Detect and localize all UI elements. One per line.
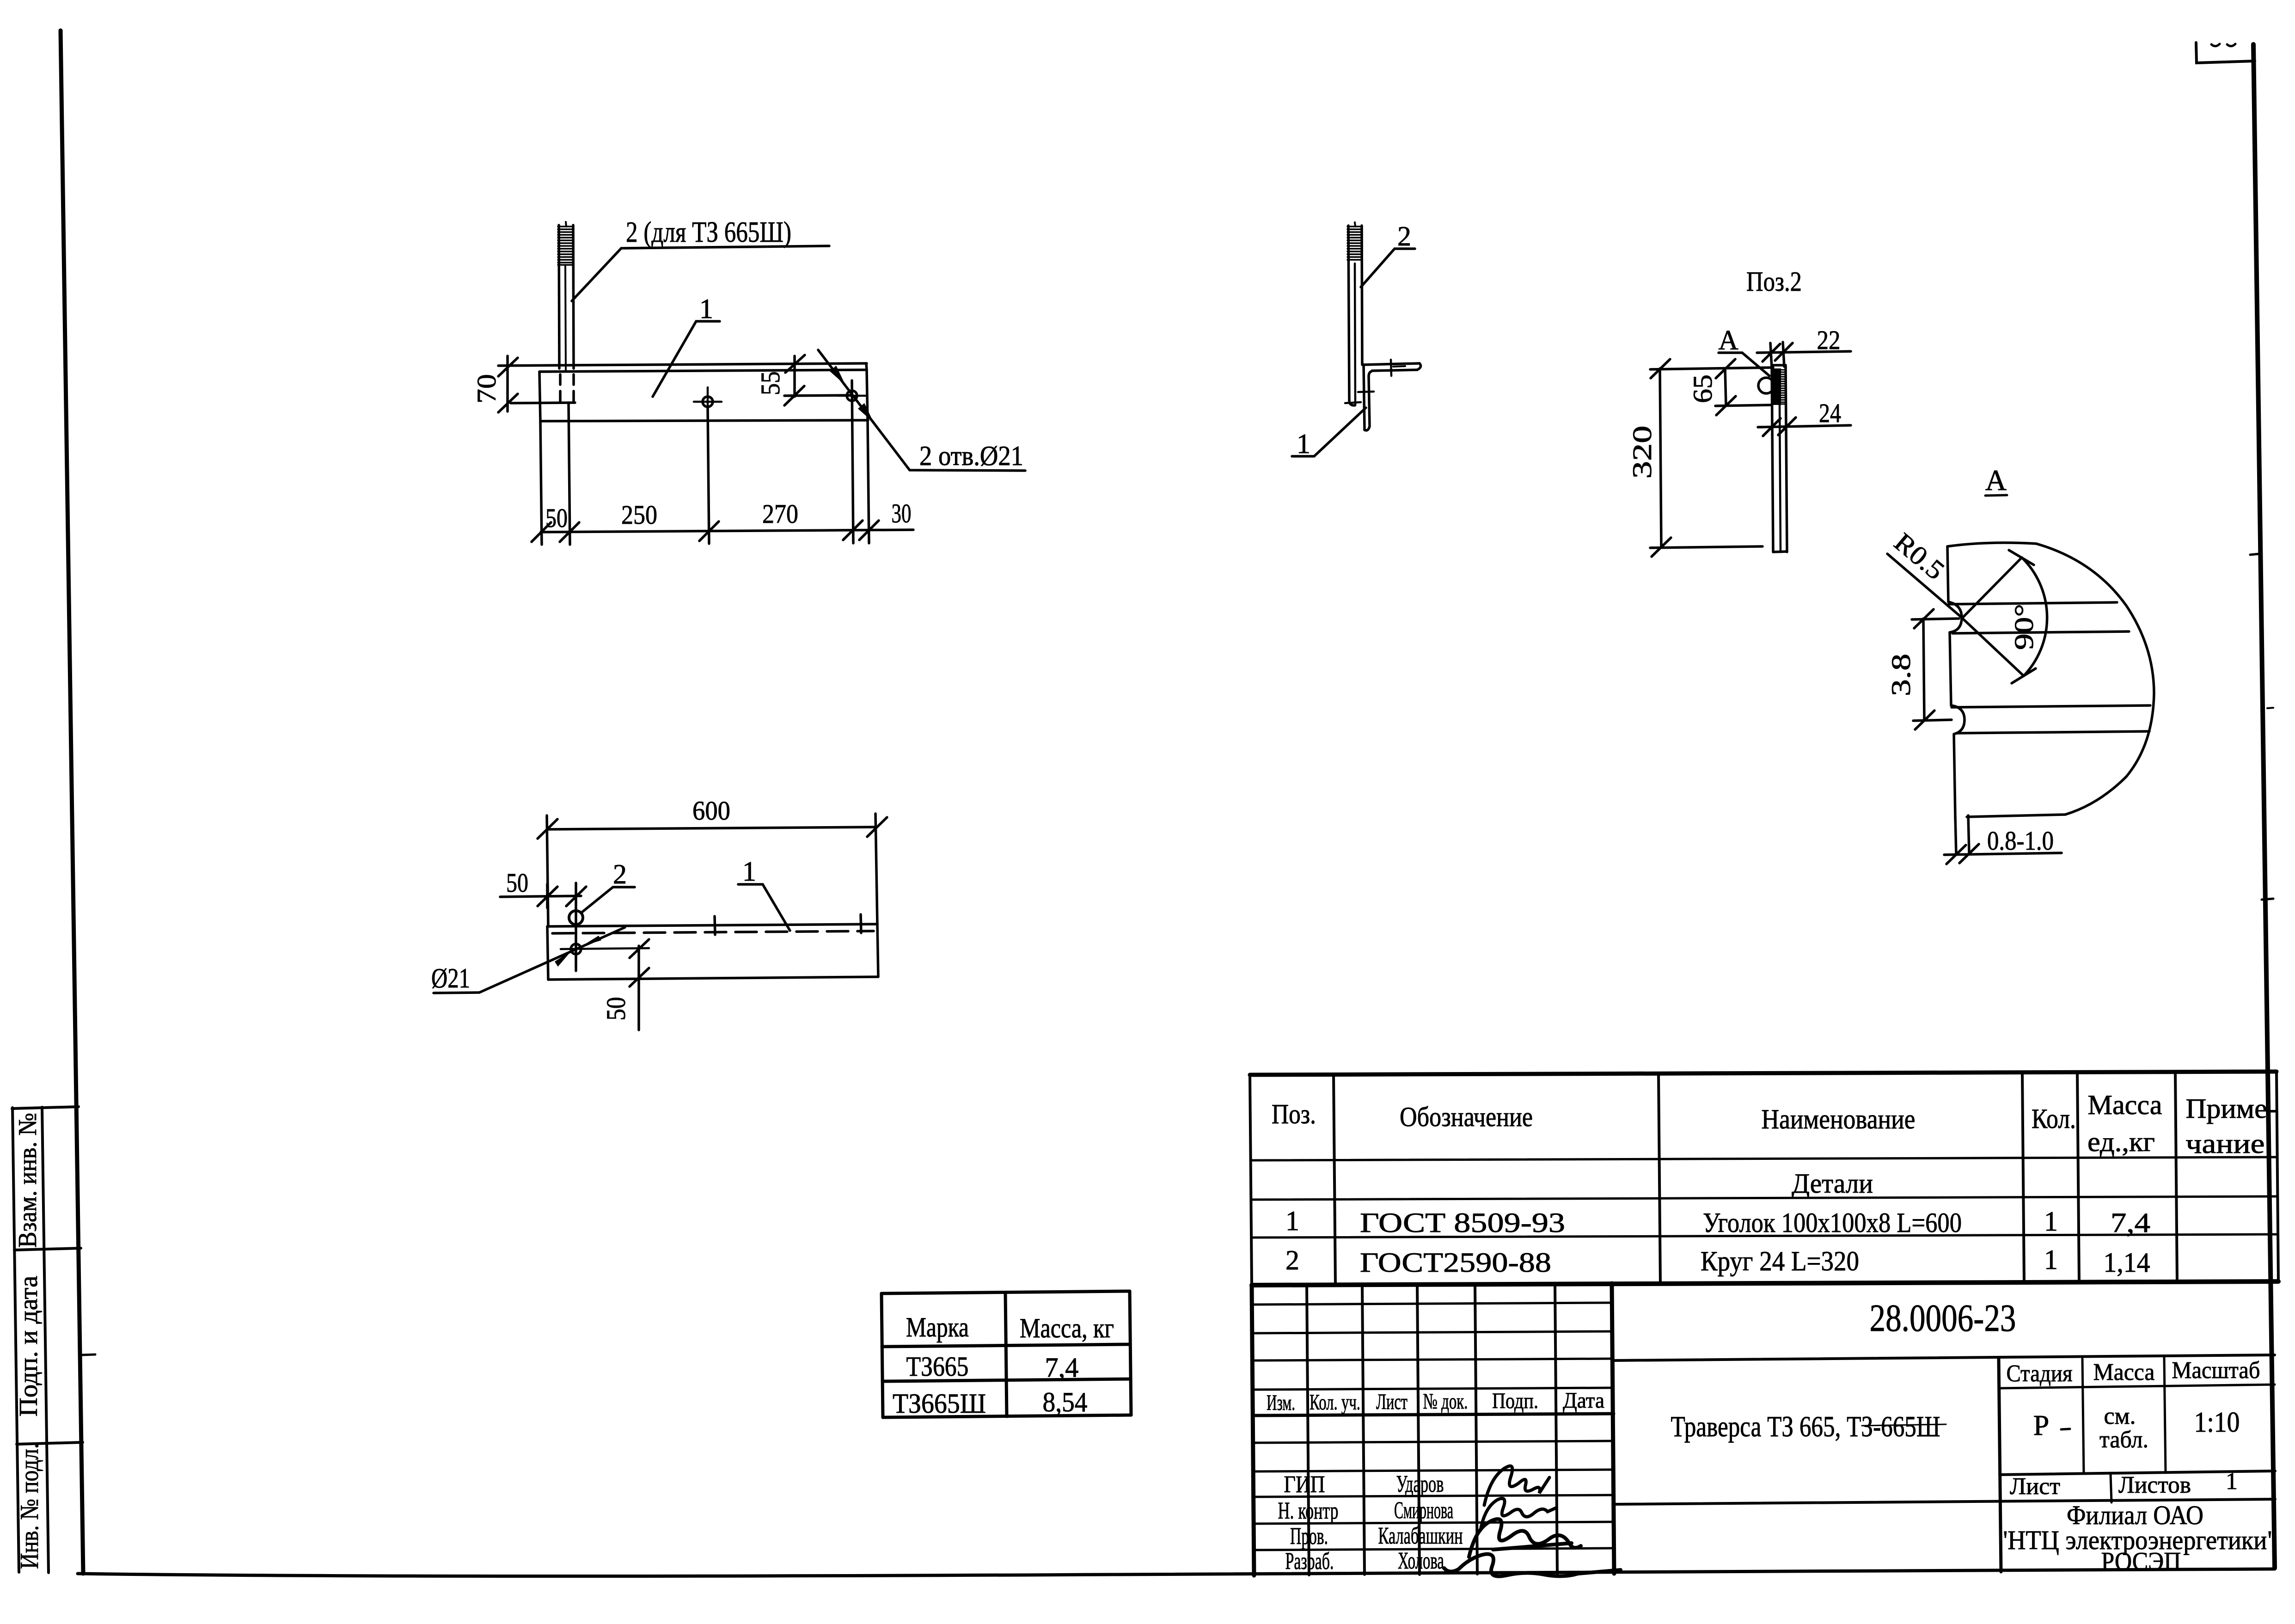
angle 90 upper leg bbox=[1962, 558, 2022, 618]
label A underline bbox=[1719, 351, 1742, 354]
dim 0.8 tick a bbox=[1946, 845, 1966, 864]
leader 1 side bbox=[1292, 408, 1366, 456]
rod thread hatch bbox=[558, 227, 574, 265]
dim 22 line bbox=[1757, 351, 1851, 353]
svg-text:Стадия: Стадия bbox=[2007, 1360, 2073, 1387]
leader pos 2 bbox=[581, 887, 635, 913]
svg-text:1: 1 bbox=[1297, 429, 1310, 459]
svg-text:ГИП: ГИП bbox=[1284, 1471, 1325, 1498]
svg-text:Н. контр: Н. контр bbox=[1278, 1498, 1339, 1524]
dim 600 ext left bbox=[547, 815, 548, 926]
cross tick on horizontal bar bbox=[1391, 360, 1391, 376]
center line through rod hole bbox=[575, 883, 577, 971]
dim 320 tick top bbox=[1651, 359, 1670, 378]
VIEW1 bbox=[471, 215, 1025, 545]
svg-text:Холова: Холова bbox=[1398, 1548, 1444, 1574]
extension line left edge bbox=[540, 421, 542, 545]
svg-text:А: А bbox=[1985, 464, 2007, 496]
signature Калабашкин bbox=[1469, 1519, 1581, 1557]
thread profile left edge mid bbox=[1950, 632, 1951, 705]
thread flank line 1 bbox=[1949, 602, 2117, 604]
svg-text:Лист: Лист bbox=[2010, 1473, 2060, 1500]
angle bar top edge bbox=[498, 363, 867, 366]
tick mark mid top line bbox=[715, 916, 715, 935]
angle bar bottom edge bbox=[540, 420, 868, 421]
rod bottom tick bbox=[1345, 402, 1361, 403]
crest left edge a bbox=[1955, 817, 1956, 854]
svg-text:Разраб.: Разраб. bbox=[1285, 1548, 1334, 1575]
svg-text:Масштаб: Масштаб bbox=[2172, 1357, 2260, 1384]
svg-text:табл.: табл. bbox=[2099, 1427, 2148, 1453]
VIEW3 bbox=[1292, 221, 1421, 459]
svg-text:см.: см. bbox=[2104, 1403, 2136, 1429]
dim 65 ext bottom bbox=[1715, 405, 1772, 406]
left margin column line inner bbox=[42, 1107, 49, 1573]
middle hole cross horizontal bbox=[694, 401, 722, 403]
tick at 570 bbox=[843, 521, 863, 540]
marka table divider bbox=[1005, 1293, 1007, 1416]
bracket vertical left edge bbox=[1364, 365, 1365, 430]
sig row b bbox=[1252, 1331, 1613, 1333]
svg-text:Лист: Лист bbox=[1376, 1390, 1408, 1414]
bracket corner fillet bbox=[1369, 371, 1373, 376]
dim 3.8 line bbox=[1923, 619, 1924, 720]
rod end circle bbox=[569, 911, 583, 925]
DETAILA bbox=[1886, 464, 2154, 864]
svg-text:Кол.: Кол. bbox=[2032, 1103, 2076, 1134]
svg-text:50: 50 bbox=[506, 868, 528, 898]
marka table bottom bbox=[883, 1415, 1131, 1417]
dim 50 left ext bbox=[546, 884, 549, 908]
svg-text:2 отв.Ø21: 2 отв.Ø21 bbox=[919, 441, 1023, 471]
svg-text:Детали: Детали bbox=[1792, 1168, 1873, 1199]
sig row g bbox=[1254, 1470, 1614, 1471]
R0.5 leader bbox=[1887, 554, 1961, 617]
sig row h bbox=[1254, 1495, 1614, 1497]
rod detail right edge bbox=[1786, 365, 1787, 552]
tick at 600 bbox=[859, 521, 879, 540]
svg-text:Листов: Листов bbox=[2118, 1472, 2191, 1498]
svg-text:24: 24 bbox=[1819, 398, 1841, 428]
svg-text:0.8-1.0: 0.8-1.0 bbox=[1987, 826, 2054, 856]
stray dash mark right mid bbox=[2267, 708, 2273, 708]
dim 320 line bbox=[1660, 368, 1661, 547]
sig col 1 bbox=[1307, 1285, 1309, 1575]
svg-text:Поз.: Поз. bbox=[1272, 1099, 1316, 1129]
side rod thread hatch bbox=[1347, 227, 1362, 260]
dash after Р bbox=[2061, 1429, 2070, 1429]
svg-text:Масса: Масса bbox=[2093, 1359, 2155, 1385]
tick mark right top line bbox=[861, 914, 861, 933]
marka table left bbox=[881, 1293, 883, 1417]
right page border line bbox=[2253, 44, 2275, 1568]
svg-text:Траверса ТЗ 665, ТЗ-665Ш: Траверса ТЗ 665, ТЗ-665Ш bbox=[1671, 1410, 1940, 1443]
thread flank line 2 bbox=[1952, 631, 2129, 633]
extension line right hole bbox=[852, 380, 853, 543]
leader line 2 otv bbox=[818, 350, 1025, 471]
marka table header line bbox=[882, 1344, 1130, 1347]
svg-text:ГОСТ 8509-93: ГОСТ 8509-93 bbox=[1360, 1207, 1565, 1238]
dim 22 ext right bbox=[1783, 342, 1784, 367]
svg-text:Пров.: Пров. bbox=[1290, 1523, 1328, 1550]
SPEC bbox=[1250, 1072, 2278, 1285]
svg-text:1: 1 bbox=[1285, 1206, 1299, 1236]
lower hole cross horizontal bbox=[561, 948, 649, 949]
svg-text:8,54: 8,54 bbox=[1043, 1387, 1088, 1417]
dim 24 tick left bbox=[1763, 418, 1781, 436]
bracket vertical right edge bbox=[1369, 376, 1370, 426]
svg-text:Подп. и дата: Подп. и дата bbox=[14, 1275, 43, 1416]
svg-text:Смирнова: Смирнова bbox=[1394, 1497, 1453, 1524]
sig col 3 bbox=[1417, 1284, 1420, 1575]
svg-text:250: 250 bbox=[621, 500, 657, 530]
left margin column line outer bbox=[12, 1108, 19, 1572]
leader for pos 2 label bbox=[572, 246, 829, 301]
svg-text:70: 70 bbox=[471, 374, 502, 404]
dim 320 ext top bbox=[1650, 368, 1773, 369]
svg-text:Калабашкин: Калабашкин bbox=[1378, 1523, 1463, 1549]
tick at 50 bbox=[560, 522, 579, 542]
line under doc number bbox=[1613, 1355, 2275, 1360]
tick at 0 bbox=[532, 522, 551, 542]
side rod middle line bbox=[1355, 264, 1355, 405]
plan view left edge bbox=[547, 926, 548, 980]
label A leader line bbox=[1742, 353, 1769, 376]
dim 65 tick top bbox=[1716, 359, 1735, 378]
list divider bbox=[2111, 1474, 2111, 1502]
spec row line detali bbox=[1251, 1196, 2277, 1200]
stray dash mark bbox=[82, 1354, 95, 1355]
vertical stadia left bbox=[1999, 1359, 2001, 1572]
dim 22 ext left bbox=[1770, 343, 1772, 368]
rod thread comb bbox=[1781, 370, 1785, 404]
svg-text:1: 1 bbox=[699, 294, 713, 324]
threaded rod part 2 right edge bbox=[573, 225, 574, 368]
arrowhead lower bbox=[858, 403, 874, 423]
sig col 2 bbox=[1362, 1284, 1365, 1575]
line under stadia header bbox=[1999, 1385, 2275, 1388]
dim 3.8 ext bottom bbox=[1913, 720, 1952, 721]
dim 55 extension line bbox=[793, 356, 796, 397]
svg-text:ед.,кг: ед.,кг bbox=[2087, 1127, 2155, 1157]
sig row i bbox=[1254, 1522, 1615, 1524]
spec table top border bbox=[1250, 1072, 2277, 1075]
svg-text:2: 2 bbox=[1397, 221, 1411, 251]
svg-text:1: 1 bbox=[2044, 1206, 2058, 1237]
dim 22 tick left bbox=[1763, 344, 1780, 362]
stray dash mark right bbox=[2262, 899, 2273, 900]
spec table bottom border bbox=[1252, 1281, 2278, 1285]
rod tip tick bbox=[566, 222, 566, 227]
svg-text:270: 270 bbox=[762, 499, 798, 529]
spec col kol bbox=[2077, 1072, 2079, 1282]
svg-text:1,14: 1,14 bbox=[2104, 1247, 2150, 1278]
spec col right bbox=[2277, 1072, 2278, 1281]
vertical stadia-massa bbox=[2082, 1359, 2084, 1474]
svg-text:600: 600 bbox=[692, 796, 730, 826]
plan view top edge bbox=[547, 924, 877, 926]
dim 24 line bbox=[1758, 425, 1851, 427]
extension line rod center bbox=[569, 403, 570, 545]
rod detail bottom cap bbox=[1773, 552, 1787, 552]
angle tick upper bbox=[2009, 550, 2034, 565]
svg-text:90°: 90° bbox=[2009, 604, 2039, 650]
side rod right edge bbox=[1362, 226, 1362, 365]
cross tick on vertical leg bbox=[1358, 392, 1374, 392]
dim 50 tick b bbox=[566, 887, 586, 906]
tick at 300 bbox=[699, 521, 719, 541]
dim 3.8 tick top bbox=[1914, 609, 1934, 628]
rod thread dark band bbox=[1772, 368, 1781, 405]
dim 3.8 tick bottom bbox=[1915, 711, 1934, 729]
sig row j bbox=[1254, 1548, 1615, 1550]
margin box divider low bbox=[17, 1442, 83, 1444]
bracket right rounded end bbox=[1417, 363, 1421, 370]
weld line under rod bbox=[511, 403, 575, 403]
svg-text:1:10: 1:10 bbox=[2194, 1407, 2240, 1438]
bracket bottom rounded end bbox=[1365, 426, 1370, 430]
svg-text:чание: чание bbox=[2186, 1128, 2265, 1159]
right hole cross horizontal bbox=[838, 395, 866, 397]
dim 600 tick right bbox=[867, 817, 887, 837]
detail mark circle A bbox=[1758, 378, 1774, 393]
dim 70 tick top bbox=[498, 358, 518, 376]
Ø21 arrowhead upper bbox=[581, 936, 601, 946]
svg-text:Круг 24 L=320: Круг 24 L=320 bbox=[1701, 1246, 1859, 1276]
thread profile outer curve bbox=[1947, 543, 2154, 815]
svg-text:ТЗ665: ТЗ665 bbox=[906, 1351, 969, 1382]
MARKA bbox=[881, 1291, 1131, 1419]
handwritten mark 2 in corner box bbox=[2227, 44, 2235, 46]
threaded rod part 2 left edge bbox=[559, 225, 559, 368]
bottom dim line bbox=[541, 530, 913, 532]
margin box divider mid bbox=[14, 1248, 81, 1250]
thread profile left edge low bbox=[1954, 734, 1955, 817]
svg-text:Поз.2: Поз.2 bbox=[1746, 266, 1802, 297]
sig row f bbox=[1253, 1441, 1614, 1443]
sig col 4 bbox=[1475, 1284, 1477, 1574]
angle 90 lower leg bbox=[1962, 618, 2024, 676]
spec header bottom line bbox=[1250, 1157, 2277, 1160]
svg-text:2: 2 bbox=[1285, 1245, 1299, 1275]
hidden rod dashed line left bbox=[559, 374, 562, 404]
sig row e izm bottom bbox=[1253, 1414, 1614, 1416]
thread groove notch 2 bbox=[1951, 705, 1965, 734]
svg-text:Подп.: Подп. bbox=[1492, 1389, 1538, 1413]
detail A title underline bbox=[1985, 495, 2007, 496]
spec col poz bbox=[1334, 1074, 1335, 1285]
angle 90 arc bbox=[2022, 558, 2047, 676]
svg-text:30: 30 bbox=[892, 498, 912, 528]
spec col oboz bbox=[1659, 1073, 1660, 1284]
spec row line 1 bbox=[1251, 1234, 2278, 1238]
thread flank line 4 bbox=[1957, 731, 2149, 733]
sig row d izm top bbox=[1253, 1388, 1613, 1390]
svg-text:Р: Р bbox=[2033, 1410, 2049, 1441]
Ø21 arrowhead lower bbox=[555, 951, 571, 967]
dim 50 bottom tick top bbox=[630, 939, 649, 958]
svg-text:Ударов: Ударов bbox=[1396, 1471, 1444, 1497]
marka table row line bbox=[882, 1379, 1131, 1381]
svg-text:50: 50 bbox=[601, 997, 631, 1021]
VIEW2 bbox=[431, 796, 887, 1030]
svg-text:7,4: 7,4 bbox=[1045, 1352, 1079, 1383]
threaded rod part 2 middle line bbox=[565, 265, 566, 370]
svg-text:Кол. уч.: Кол. уч. bbox=[1310, 1390, 1360, 1415]
angle bar left edge bbox=[539, 372, 540, 421]
svg-text:50: 50 bbox=[545, 503, 568, 533]
dim 50 bottom tick bottom bbox=[630, 968, 649, 987]
dim 65 line bbox=[1725, 368, 1726, 405]
svg-text:1: 1 bbox=[2226, 1468, 2238, 1495]
extension line right edge bbox=[868, 421, 869, 543]
stray dash mark right upper bbox=[2250, 554, 2259, 555]
svg-text:1: 1 bbox=[742, 856, 756, 887]
svg-text:Ø21: Ø21 bbox=[431, 963, 470, 993]
middle hole bbox=[703, 397, 713, 407]
dim 65 tick bottom bbox=[1716, 396, 1736, 415]
svg-text:55: 55 bbox=[755, 371, 785, 395]
leader pos 1 plan bbox=[738, 884, 790, 931]
cross tick 2 on horizontal bar bbox=[1393, 366, 1405, 367]
hidden rod dashed line right bbox=[572, 374, 575, 404]
svg-text:1: 1 bbox=[2044, 1244, 2058, 1275]
dim 600 ext right bbox=[875, 814, 877, 924]
middle hole cross vertical bbox=[707, 387, 709, 416]
dim 55 tick bottom bbox=[784, 386, 804, 405]
TITLEBLOCK bbox=[1252, 1283, 2277, 1576]
svg-text:Уголок 100х100х8 L=600: Уголок 100х100х8 L=600 bbox=[1703, 1207, 1962, 1238]
angle bar right edge bbox=[867, 370, 868, 421]
top-right corner box bbox=[2196, 43, 2255, 63]
rod detail top cap bbox=[1772, 364, 1786, 367]
svg-text:Инв. № подл.: Инв. № подл. bbox=[15, 1443, 44, 1569]
svg-text:Марка: Марка bbox=[906, 1312, 969, 1342]
leader 2 side bbox=[1361, 249, 1415, 287]
plan view right edge bbox=[877, 924, 878, 977]
svg-text:Обозначение: Обозначение bbox=[1400, 1102, 1533, 1132]
svg-text:Изм.: Изм. bbox=[1267, 1391, 1295, 1415]
crest right edge b bbox=[1968, 815, 1969, 853]
rod detail mid line bbox=[1780, 405, 1781, 552]
left page border line bbox=[61, 31, 83, 1574]
marka table right bbox=[1130, 1291, 1131, 1415]
svg-text:Взам. инв. №: Взам. инв. № bbox=[13, 1113, 42, 1248]
svg-text:2: 2 bbox=[613, 859, 627, 889]
dim 55 tick top bbox=[785, 355, 805, 373]
svg-text:320: 320 bbox=[1627, 426, 1657, 479]
VIEW4 bbox=[1627, 266, 1851, 557]
side rod left edge bbox=[1348, 226, 1354, 405]
angle tick lower bbox=[2012, 668, 2036, 683]
svg-text:2 (для ТЗ 665Ш): 2 (для ТЗ 665Ш) bbox=[626, 215, 791, 248]
signature Смирнова bbox=[1481, 1498, 1556, 1530]
margin box divider top bbox=[12, 1107, 79, 1109]
line under list row bbox=[1613, 1499, 2275, 1504]
Ø21 underline bbox=[434, 993, 479, 993]
spec col left bbox=[1250, 1075, 1252, 1285]
svg-text:№ док.: № док. bbox=[1423, 1389, 1468, 1414]
dim 70 tick bottom bbox=[498, 394, 518, 412]
marka table top bbox=[881, 1291, 1130, 1293]
extension line middle hole bbox=[708, 407, 709, 544]
plan view bottom edge bbox=[548, 977, 878, 980]
angle bar bend line bbox=[539, 370, 866, 372]
svg-text:А: А bbox=[1718, 325, 1738, 355]
svg-text:Дата: Дата bbox=[1563, 1388, 1604, 1413]
dim 55 line bbox=[784, 395, 852, 396]
leader for pos 1 label bbox=[653, 321, 720, 397]
lower hole plan bbox=[571, 944, 581, 954]
signature Ударов bbox=[1484, 1466, 1549, 1505]
dim 320 tick bottom bbox=[1652, 538, 1671, 557]
svg-text:Масса: Масса bbox=[2088, 1090, 2162, 1120]
spec col massa bbox=[2175, 1072, 2177, 1282]
dim 50 bottom line vertical bbox=[637, 946, 640, 1030]
sig row c bbox=[1253, 1359, 1613, 1360]
svg-text:65: 65 bbox=[1688, 374, 1718, 403]
svg-text:ТЗ665Ш: ТЗ665Ш bbox=[893, 1388, 986, 1419]
bracket horizontal bottom edge bbox=[1372, 370, 1417, 371]
arrowhead upper bbox=[830, 366, 845, 385]
dim 70 line bbox=[506, 356, 509, 411]
sig row a bbox=[1252, 1303, 1613, 1305]
bottom page border line bbox=[78, 1569, 2275, 1576]
angle bar flange right edge bbox=[866, 363, 867, 370]
sig table right edge thick bbox=[1612, 1283, 1614, 1574]
dim 0.8 tick b bbox=[1959, 844, 1979, 863]
dim 50 tick a bbox=[538, 887, 557, 906]
svg-text:7,4: 7,4 bbox=[2111, 1207, 2150, 1238]
bracket horizontal top edge bbox=[1364, 363, 1420, 365]
svg-text:28.0006-23: 28.0006-23 bbox=[1870, 1297, 2016, 1340]
svg-text:РОСЭП: РОСЭП bbox=[2101, 1547, 2181, 1576]
rod detail left edge bbox=[1772, 365, 1773, 552]
dim 24 tick right bbox=[1778, 417, 1796, 435]
svg-text:Наименование: Наименование bbox=[1762, 1104, 1916, 1134]
dim 600 line bbox=[547, 827, 877, 829]
signature Холова bbox=[1444, 1554, 1621, 1576]
thread flank line 3 bbox=[1952, 705, 2150, 707]
Ø21 leader line bbox=[479, 927, 625, 993]
svg-text:ГОСТ2590-88: ГОСТ2590-88 bbox=[1360, 1247, 1551, 1278]
thread profile bottom edge bbox=[1967, 815, 2065, 817]
sig col 5 bbox=[1555, 1283, 1557, 1574]
spec col naim bbox=[2022, 1072, 2024, 1283]
dim 600 tick left bbox=[538, 819, 557, 839]
dim 0.8-1.0 line bbox=[1944, 853, 2062, 855]
strike artifact on title bbox=[1862, 1424, 1946, 1426]
dim 320 ext bottom bbox=[1650, 546, 1763, 548]
thread profile left edge top bbox=[1947, 546, 1948, 602]
sig table left edge bbox=[1252, 1285, 1254, 1575]
dim 3.8 ext top bbox=[1912, 619, 1959, 619]
side rod tip tick bbox=[1355, 222, 1355, 227]
svg-text:22: 22 bbox=[1817, 325, 1841, 355]
plan hidden bend dashed line bbox=[552, 931, 874, 933]
thread groove notch 1 bbox=[1948, 602, 1962, 632]
line under R row bbox=[2000, 1471, 2275, 1475]
dim 22 tick right bbox=[1775, 343, 1793, 361]
svg-text:3.8: 3.8 bbox=[1886, 654, 1916, 696]
right hole bbox=[847, 391, 857, 401]
dim 50 left line bbox=[500, 896, 581, 897]
vertical massa-masshtab bbox=[2164, 1358, 2166, 1473]
handwritten mark 1 in corner box bbox=[2211, 44, 2220, 46]
svg-text:Приме-: Приме- bbox=[2186, 1093, 2277, 1124]
svg-text:Масса, кг: Масса, кг bbox=[1020, 1313, 1114, 1343]
